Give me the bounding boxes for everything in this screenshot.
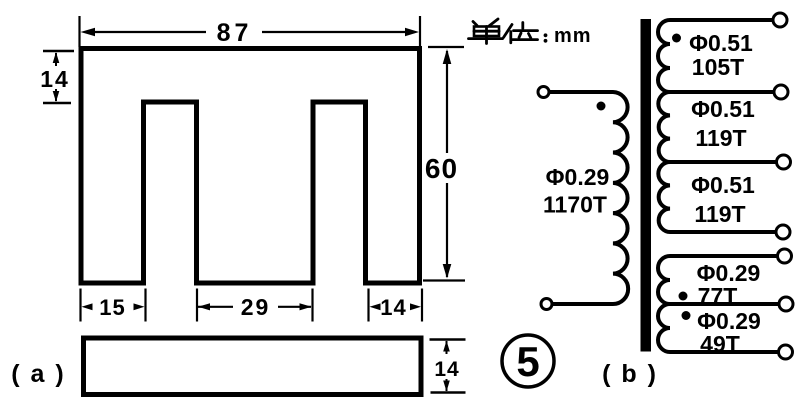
- svg-text:119T: 119T: [694, 201, 745, 227]
- dimension 14 (top yoke) tick bottom: [43, 102, 71, 104]
- dimension 14 arrow down: [55, 89, 57, 101]
- svg-text:Φ0.51: Φ0.51: [689, 30, 753, 56]
- dimension 87 extension line right: [419, 16, 421, 47]
- dimension 87 line: [94, 31, 206, 33]
- svg-text:49T: 49T: [700, 331, 740, 357]
- dimension 14 (top yoke) tick top: [43, 50, 74, 52]
- dimension 60 extension line top: [428, 46, 464, 48]
- S1 polarity dot: [672, 34, 681, 43]
- svg-text:Φ0.51: Φ0.51: [691, 172, 755, 198]
- secondary terminal S3 bottom: [776, 225, 790, 239]
- tap terminal S4/S5: [779, 297, 793, 311]
- I-bar dimension 14 tick bottom: [431, 391, 466, 393]
- svg-text:14: 14: [40, 66, 70, 92]
- svg-text:Φ0.29: Φ0.29: [546, 164, 610, 190]
- svg-text:119T: 119T: [695, 125, 746, 151]
- dimension 14 (right leg) arrows: [370, 303, 381, 310]
- secondary terminal S4 top: [778, 249, 792, 263]
- primary polarity dot: [597, 102, 606, 111]
- hanzi 单: [473, 22, 477, 26]
- secondary winding S1 phi0.51 105T: [658, 20, 774, 92]
- hanzi 位: [504, 25, 513, 38]
- svg-text:87: 87: [217, 19, 253, 47]
- tick left-leg left: [79, 289, 81, 322]
- I-bar 14 arrow down: [446, 379, 448, 391]
- svg-text:29: 29: [241, 294, 271, 320]
- dimension 60 arrow up: [443, 49, 452, 64]
- I-bar 14 arrow up: [446, 341, 448, 354]
- svg-text:60: 60: [425, 153, 458, 184]
- svg-text:mm: mm: [554, 25, 592, 47]
- secondary winding S3 phi0.51 119T: [658, 162, 776, 232]
- svg-text:105T: 105T: [692, 54, 744, 80]
- secondary winding S5 phi0.29 49T: [658, 304, 779, 352]
- tick centre-leg right: [311, 289, 313, 322]
- unit note 单位:mm (hand drawn hanzi): [469, 19, 538, 44]
- dimension 60 arrow down: [443, 264, 452, 279]
- E-lamination core outline (a): [81, 49, 420, 284]
- svg-text:15: 15: [99, 295, 125, 320]
- colon of 单位:mm: [544, 33, 548, 37]
- svg-text:1170T: 1170T: [543, 192, 607, 218]
- svg-text:( b ): ( b ): [602, 360, 658, 388]
- svg-text:14: 14: [380, 295, 406, 320]
- tick centre-leg left: [196, 289, 198, 322]
- I-bar lamination: [84, 338, 422, 395]
- svg-text:( a ): ( a ): [11, 360, 65, 388]
- tick right-leg right: [421, 289, 423, 322]
- tick right-leg left: [367, 289, 369, 322]
- dimension 60 line: [446, 51, 448, 153]
- S4 polarity dot: [679, 292, 688, 301]
- primary winding P1 phi0.29 1170T: [549, 92, 628, 304]
- dimension 14 arrow up: [55, 53, 57, 66]
- I-bar dimension 14 tick top: [430, 338, 466, 340]
- secondary winding S4 phi0.29 77T: [658, 256, 779, 304]
- primary terminal bottom: [541, 299, 552, 310]
- secondary winding S2 phi0.51 119T: [658, 92, 776, 162]
- dimension 87 extension line left: [78, 16, 80, 47]
- svg-text:5: 5: [516, 338, 539, 385]
- secondary terminal S5 bottom: [779, 345, 793, 359]
- svg-text:14: 14: [434, 358, 459, 381]
- S5 polarity dot: [682, 311, 691, 320]
- tap terminal S1/S2: [774, 85, 788, 99]
- dimension 87 arrow right: [405, 28, 419, 37]
- svg-text:Φ0.51: Φ0.51: [691, 96, 755, 122]
- figure number circled 5: [502, 335, 554, 387]
- dimension 60 extension line bottom: [423, 279, 465, 281]
- secondary terminal S1 top: [773, 13, 787, 27]
- dimension 15 arrows: [82, 303, 93, 310]
- dimension 87 arrow left: [81, 28, 96, 37]
- svg-text:77T: 77T: [698, 283, 738, 309]
- dimension 29 line+arrows: [198, 306, 233, 308]
- tap terminal S2/S3: [777, 155, 791, 169]
- tick left-leg right: [144, 289, 146, 322]
- primary terminal top: [538, 87, 549, 98]
- transformer core bar: [641, 19, 652, 352]
